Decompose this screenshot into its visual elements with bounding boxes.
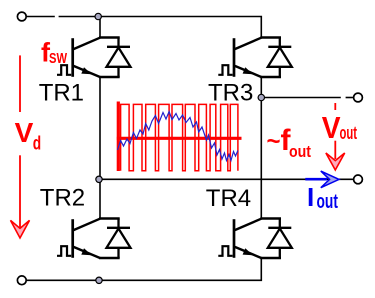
- V_d arrowhead: [11, 220, 30, 238]
- wire lower output from left midpoint to terminal: [99, 178, 354, 180]
- V_d arrow upper segment: [19, 55, 21, 112]
- TR4 gate pulse symbol: [218, 246, 232, 256]
- output terminal lower: [354, 175, 363, 184]
- PWM pulse train: [121, 104, 238, 170]
- svg-text:~: ~: [267, 128, 281, 155]
- V_out arrow line: [334, 141, 336, 159]
- transistor TR3: [234, 38, 281, 78]
- DC- terminal: [17, 276, 26, 285]
- svg-text:d: d: [33, 134, 41, 155]
- TR1 gate pulse symbol: [57, 65, 71, 75]
- TR1 emitter arrow: [81, 67, 91, 74]
- I_out arrow line: [305, 178, 327, 181]
- junction node bottom rail: [96, 277, 102, 283]
- TR4 emitter arrow: [243, 248, 253, 255]
- wire top rail to TR3: [59, 17, 262, 38]
- svg-text:SW: SW: [49, 50, 68, 67]
- wire upper output segment 2: [346, 97, 354, 99]
- PWM plot horizontal axis: [117, 137, 242, 140]
- svg-text:out: out: [289, 142, 311, 161]
- wire top rail left segment: [26, 16, 54, 18]
- output terminal upper: [354, 93, 363, 102]
- svg-text:TR4: TR4: [206, 185, 251, 212]
- wire upper output segment 1: [261, 97, 341, 99]
- wire right leg midpoint (TR3 emitter to TR4 collector): [260, 77, 262, 219]
- TR3 emitter arrow: [243, 67, 253, 74]
- TR3 gate pulse symbol: [218, 65, 232, 75]
- V_out arrowhead: [326, 153, 345, 170]
- blue filtered output waveform: [118, 112, 238, 161]
- svg-text:TR2: TR2: [40, 185, 85, 212]
- wire left leg midpoint (TR1 emitter to TR2 collector): [99, 77, 101, 219]
- junction node top rail: [95, 13, 101, 19]
- TR2 gate pulse symbol: [57, 246, 71, 256]
- svg-text:TR1: TR1: [39, 80, 84, 107]
- junction node left midpoint: [96, 176, 102, 182]
- svg-text:V: V: [322, 110, 341, 145]
- TR3 freewheel diode: [268, 38, 292, 78]
- svg-text:TR3: TR3: [208, 80, 253, 107]
- TR1 freewheel diode: [107, 38, 131, 78]
- wire TR1 collector drop: [99, 17, 101, 38]
- I_out arrowhead: [321, 171, 339, 188]
- wire bottom rail: [26, 258, 261, 280]
- TR2 freewheel diode: [107, 219, 131, 259]
- transistor TR4: [234, 219, 281, 259]
- PWM plot vertical axis: [117, 102, 120, 172]
- V_out arrow top dash: [334, 103, 336, 110]
- DC+ terminal: [17, 12, 26, 21]
- V_d arrow lower segment: [19, 155, 21, 229]
- TR2 emitter arrow: [81, 248, 91, 255]
- svg-text:I: I: [307, 182, 314, 212]
- transistor TR1: [73, 38, 120, 78]
- TR4 freewheel diode: [268, 219, 292, 259]
- svg-text:out: out: [317, 191, 339, 213]
- junction node right midpoint: [258, 94, 264, 100]
- transistor TR2: [73, 219, 120, 259]
- svg-text:V: V: [15, 117, 34, 148]
- svg-text:out: out: [340, 123, 358, 143]
